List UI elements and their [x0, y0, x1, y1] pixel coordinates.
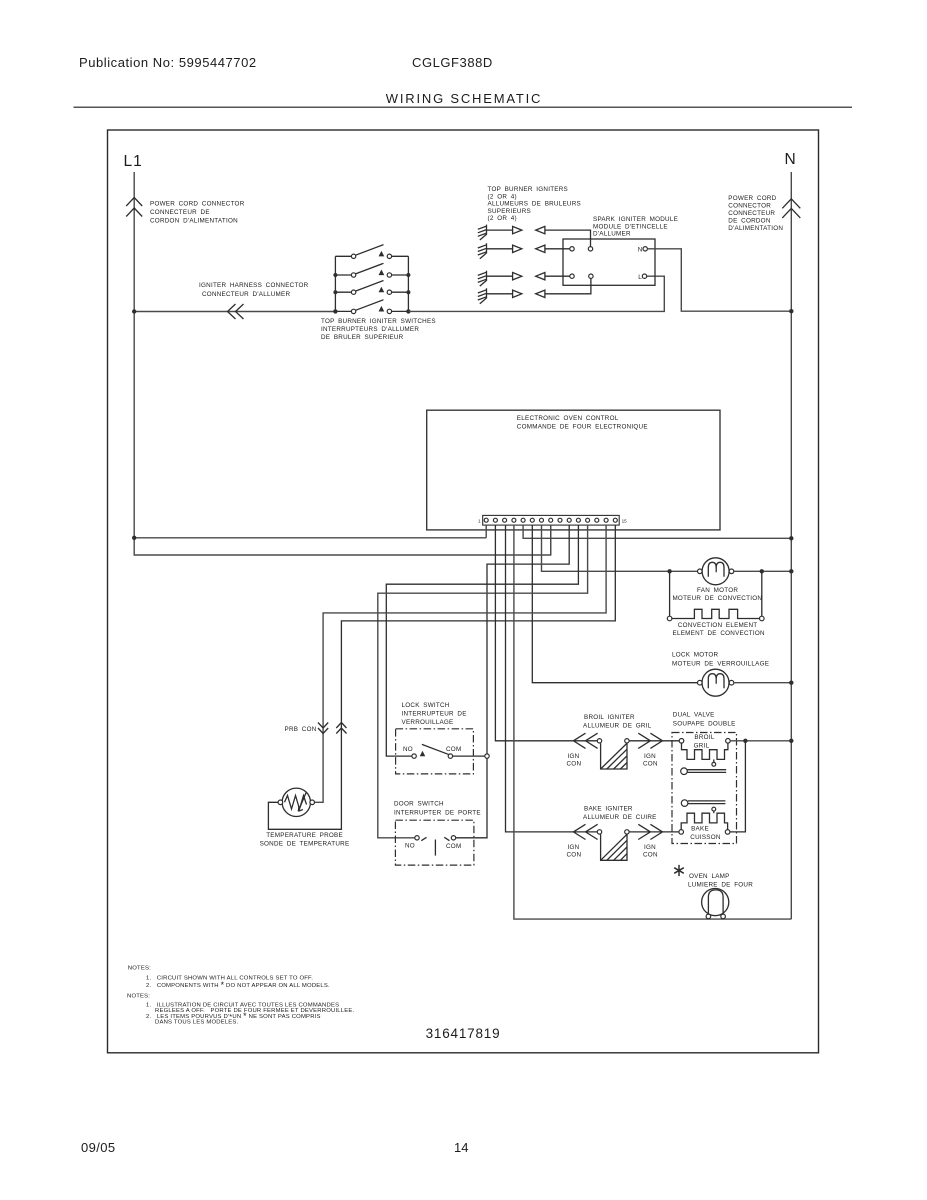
- wire pin1 to neutral bus: [485, 525, 487, 538]
- label bake igniter: [583, 806, 657, 822]
- svg-text:L: L: [638, 274, 642, 281]
- svg-text:POWER CORD: POWER CORD: [728, 195, 776, 202]
- svg-text:CONVECTION ELEMENT: CONVECTION ELEMENT: [678, 622, 758, 629]
- label lock motor: [672, 651, 769, 667]
- igniter electrode E3: [478, 271, 487, 286]
- svg-text:D'ALLUMER: D'ALLUMER: [593, 231, 631, 238]
- connector arrow right row4: [513, 290, 522, 297]
- svg-text:ALLUMEUR DE GRIL: ALLUMEUR DE GRIL: [583, 723, 652, 730]
- svg-text:IGN: IGN: [568, 844, 580, 851]
- label door switch: [394, 801, 481, 817]
- dual valve V1 dashed box: [672, 733, 737, 844]
- svg-text:CON: CON: [643, 852, 658, 859]
- wire igniter bus left (L1 to switch ladder): [134, 311, 335, 313]
- svg-text:BAKE IGNITER: BAKE IGNITER: [584, 806, 633, 813]
- junction dot N rail / bus: [789, 536, 793, 540]
- wire row1 to module top pin: [545, 230, 591, 247]
- svg-text:ELEMENT DE CONVECTION: ELEMENT DE CONVECTION: [673, 630, 766, 637]
- connector arrow left row4: [536, 290, 545, 297]
- igniter electrode E1: [478, 225, 487, 240]
- label broil IGN CON right: [643, 753, 658, 768]
- svg-text:SUPERIEURS: SUPERIEURS: [488, 208, 531, 215]
- junction dot fan line / element right branch: [760, 569, 764, 573]
- label igniter harness connector: [199, 282, 309, 298]
- wire E2 to connector: [487, 248, 513, 250]
- svg-text:CONNECTEUR: CONNECTEUR: [728, 210, 775, 217]
- lock motor M2: [698, 669, 734, 696]
- connector arrow right row2: [513, 245, 522, 252]
- label dual valve: [673, 712, 736, 728]
- svg-text:FAN MOTOR: FAN MOTOR: [697, 587, 738, 594]
- svg-text:DE CORDON: DE CORDON: [728, 218, 771, 225]
- svg-text:CONNECTEUR D'ALLUMER: CONNECTEUR D'ALLUMER: [202, 291, 290, 298]
- EOC pin header J1: [483, 515, 620, 525]
- label power cord connector left: [150, 201, 245, 225]
- left rail: [334, 256, 336, 311]
- label broil IGN CON left: [567, 753, 582, 768]
- bake valve tap: [713, 811, 715, 813]
- broil valve tap: [713, 759, 715, 762]
- element meander: [672, 609, 760, 618]
- svg-text:BAKE: BAKE: [691, 826, 709, 833]
- lock switch travel stop triangle: [420, 752, 424, 756]
- svg-text:ALLUMEUR DE CUIRE: ALLUMEUR DE CUIRE: [583, 814, 657, 821]
- svg-text:LOCK MOTOR: LOCK MOTOR: [672, 651, 719, 658]
- svg-text:COM: COM: [446, 843, 461, 850]
- wire pin14 to temperature probe: [314, 525, 606, 802]
- svg-text:15: 15: [622, 519, 628, 524]
- svg-text:NOTES:: NOTES:: [127, 993, 150, 999]
- label fan motor: [672, 587, 762, 602]
- module pin circles: [570, 247, 574, 251]
- wire pin10 to lock/door COM drop: [456, 525, 570, 838]
- label broil/gril coil: [694, 734, 715, 750]
- label top burner igniters: [488, 186, 581, 222]
- svg-text:CGLGF388D: CGLGF388D: [412, 55, 493, 70]
- svg-text:MOTEUR DE CONVECTION: MOTEUR DE CONVECTION: [672, 595, 762, 602]
- junction dot L1 rail / bus: [132, 536, 136, 540]
- probe resistor zigzag: [285, 796, 307, 810]
- svg-text:WIRING SCHEMATIC: WIRING SCHEMATIC: [386, 91, 542, 106]
- oven lamp DS1: [702, 889, 729, 919]
- svg-text:Publication No: 5995447702: Publication No: 5995447702: [79, 55, 257, 70]
- connector arrow right row3: [513, 273, 522, 280]
- svg-text:DOOR SWITCH: DOOR SWITCH: [394, 801, 444, 808]
- svg-text:DE BRULER SUPERIEUR: DE BRULER SUPERIEUR: [321, 334, 404, 341]
- wire pin5 to bus right segment: [523, 525, 791, 538]
- junction dot N rail / module N wire: [789, 309, 793, 313]
- junction dot broil/N rail: [789, 739, 793, 743]
- svg-text:NOTES:: NOTES:: [128, 966, 151, 972]
- svg-text:CON: CON: [643, 761, 658, 768]
- svg-text:BROIL IGNITER: BROIL IGNITER: [584, 714, 635, 721]
- temperature probe RT1: [278, 788, 314, 816]
- svg-text:ALLUMEURS DE BRULEURS: ALLUMEURS DE BRULEURS: [488, 201, 581, 208]
- wire pin8 to L1 rail (y555): [550, 525, 552, 555]
- wire pin11 to lock switch NO: [386, 525, 578, 756]
- element branch wires: [670, 571, 762, 616]
- bake igniter G2 (hatched): [597, 830, 629, 861]
- junction dot fan line / N rail: [789, 569, 793, 573]
- label oven lamp: [688, 873, 753, 888]
- lock switch contacts: [412, 744, 453, 758]
- junction dot fan line / element left branch: [667, 569, 671, 573]
- svg-text:OVEN LAMP: OVEN LAMP: [689, 873, 730, 880]
- electronic oven control U2 box: [427, 410, 720, 530]
- lock switch blade: [422, 744, 449, 754]
- svg-text:PRB CON: PRB CON: [285, 726, 317, 733]
- door switch contact ticks: [421, 837, 449, 840]
- label temperature probe: [260, 832, 350, 848]
- bake valve coil: [679, 807, 730, 834]
- wire pin4 to oven lamp line: [514, 525, 791, 919]
- label broil igniter: [583, 714, 652, 730]
- svg-text:TEMPERATURE PROBE: TEMPERATURE PROBE: [266, 832, 343, 839]
- wire E1 to connector: [487, 229, 513, 231]
- svg-text:316417819: 316417819: [426, 1026, 501, 1041]
- svg-text:COM: COM: [446, 746, 461, 753]
- bake valve plunger: [681, 800, 725, 807]
- wire pin3 to bake igniter line: [506, 525, 598, 832]
- svg-text:D'ALIMENTATION: D'ALIMENTATION: [728, 225, 783, 232]
- svg-text:CONNECTOR: CONNECTOR: [728, 203, 771, 210]
- svg-text:IGN: IGN: [568, 753, 580, 760]
- svg-text:DANS TOUS LES MODELES.: DANS TOUS LES MODELES.: [155, 1019, 239, 1025]
- igniter electrode E2: [478, 243, 487, 258]
- broil igniter connector chevrons right: [638, 733, 662, 748]
- schematic outer border: [108, 130, 819, 1053]
- svg-text:SOUPAPE DOUBLE: SOUPAPE DOUBLE: [673, 721, 736, 728]
- svg-text:MODULE D'ETINCELLE: MODULE D'ETINCELLE: [593, 223, 668, 230]
- lock switch SW5 dashed box: [396, 729, 474, 774]
- fan motor M1: [698, 558, 734, 585]
- wire L1 rail vertical: [134, 172, 551, 555]
- svg-text:VERROUILLAGE: VERROUILLAGE: [402, 719, 454, 726]
- connector arrow right row1: [513, 226, 522, 233]
- switch row 4 (on bus): [335, 310, 408, 312]
- wire E3 to connector: [487, 275, 513, 277]
- svg-text:ELECTRONIC OVEN CONTROL: ELECTRONIC OVEN CONTROL: [517, 415, 619, 422]
- svg-text:LUMIERE DE FOUR: LUMIERE DE FOUR: [688, 881, 753, 888]
- motor coil symbol: [708, 562, 724, 577]
- top burner igniter switches SW1-SW4 ladder: [333, 245, 410, 314]
- wire bake igniter to valve: [629, 831, 679, 833]
- bake igniter connector chevrons left: [573, 824, 597, 839]
- svg-text:SONDE DE TEMPERATURE: SONDE DE TEMPERATURE: [260, 841, 350, 848]
- wire lock motor to N rail: [734, 682, 792, 684]
- lock COM terminal circle on pin10 drop: [485, 754, 489, 758]
- wire row2 to module left pin: [545, 248, 570, 250]
- wire broil junction down to bake coil: [730, 741, 746, 832]
- wire E4 to connector: [487, 293, 513, 295]
- svg-text:COMMANDE DE FOUR ELECTRONIQUE: COMMANDE DE FOUR ELECTRONIQUE: [517, 424, 648, 431]
- wire lock COM to pin10 drop: [453, 755, 487, 757]
- wire pin6 to lock motor: [532, 525, 697, 683]
- wire row3 to module left pin: [545, 275, 570, 277]
- top burner igniter row 2: [478, 243, 570, 258]
- svg-text:INTERRUPTEUR DE: INTERRUPTEUR DE: [402, 711, 467, 718]
- connector arrow left row1: [536, 226, 545, 233]
- label lock switch: [402, 702, 467, 726]
- svg-text:L1: L1: [124, 153, 143, 170]
- right rail: [407, 256, 409, 311]
- broil igniter G1 (hatched): [597, 739, 629, 769]
- switch row 2: [335, 274, 408, 276]
- svg-text:NO: NO: [405, 843, 415, 850]
- svg-text:LOCK SWITCH: LOCK SWITCH: [402, 702, 450, 709]
- pin header terminals 1-15: [484, 518, 617, 522]
- switch row 3: [335, 291, 408, 293]
- wire pin15 to temperature probe return loop: [268, 525, 615, 829]
- door switch contacts: [415, 836, 456, 856]
- wire pin12 to door switch NO: [378, 525, 588, 838]
- svg-text:(2 OR 4): (2 OR 4): [488, 215, 517, 222]
- spark igniter module U1 box: [563, 239, 655, 285]
- svg-text:IGN: IGN: [644, 844, 656, 851]
- label power cord connector right: [728, 195, 783, 232]
- label top burner igniter switches: [321, 318, 436, 341]
- broil valve coil: [679, 739, 730, 767]
- svg-text:INTERRUPTEURS D'ALLUMER: INTERRUPTEURS D'ALLUMER: [321, 326, 419, 333]
- bake igniter connector chevrons right: [638, 824, 662, 839]
- svg-text:GRIL: GRIL: [694, 743, 710, 750]
- svg-text:N: N: [638, 246, 643, 253]
- svg-text:CORDON D'ALIMENTATION: CORDON D'ALIMENTATION: [150, 218, 238, 225]
- wire row4 to module bottom pin: [545, 278, 591, 293]
- svg-text:BROIL: BROIL: [694, 734, 714, 741]
- svg-text:TOP BURNER IGNITERS: TOP BURNER IGNITERS: [488, 186, 569, 193]
- connector arrow left row2: [536, 245, 545, 252]
- svg-text:(2 OR 4): (2 OR 4): [488, 193, 517, 200]
- motor coil symbol: [708, 674, 724, 689]
- wire N rail vertical: [790, 172, 792, 919]
- wire neutral bus left segment: [134, 537, 486, 539]
- svg-text:TOP BURNER IGNITER SWITCHES: TOP BURNER IGNITER SWITCHES: [321, 318, 436, 325]
- door switch SW6 dashed box: [395, 820, 474, 865]
- svg-text:IGNITER HARNESS CONNECTOR: IGNITER HARNESS CONNECTOR: [199, 282, 309, 289]
- svg-text:N: N: [785, 151, 796, 168]
- ladder junction dots: [333, 273, 337, 277]
- svg-text:14: 14: [454, 1140, 468, 1155]
- label bake/cuisson coil: [690, 826, 721, 841]
- broil valve plunger: [681, 768, 727, 775]
- wire switch bus to L pin riser: [408, 276, 664, 311]
- wire pin2 to broil igniter line: [495, 525, 597, 741]
- igniter harness connector chevrons: [228, 304, 244, 319]
- svg-text:1. CIRCUIT SHOWN WITH ALL CO: 1. CIRCUIT SHOWN WITH ALL CONTROLS SET T…: [146, 975, 313, 981]
- svg-text:1: 1: [478, 519, 481, 524]
- top burner igniter row 1: [478, 225, 591, 247]
- svg-text:CON: CON: [567, 761, 582, 768]
- label electronic oven control: [517, 415, 648, 431]
- igniter electrode E4: [478, 288, 487, 303]
- svg-text:DUAL VALVE: DUAL VALVE: [673, 712, 715, 719]
- probe connector chevrons (down pair on pin14 wire): [318, 723, 328, 734]
- wire module N pin to N rail: [647, 249, 791, 311]
- junction dot L1/igniter bus: [132, 309, 136, 313]
- power cord connector P1 (left chevrons): [126, 198, 142, 217]
- svg-text:NO: NO: [403, 746, 413, 753]
- convection element R1: [667, 571, 764, 621]
- notes block: [127, 966, 354, 1026]
- wire pin7 to fan motor line: [542, 525, 698, 571]
- label bake IGN CON left: [567, 844, 582, 859]
- svg-text:MOTEUR DE VERROUILLAGE: MOTEUR DE VERROUILLAGE: [672, 660, 769, 667]
- svg-text:09/05: 09/05: [81, 1140, 116, 1155]
- probe connector chevrons (up pair on pin15 wire): [336, 723, 346, 734]
- door switch actuator stem: [434, 840, 436, 856]
- svg-text:POWER CORD CONNECTOR: POWER CORD CONNECTOR: [150, 201, 245, 208]
- wire broil line to N rail: [730, 740, 791, 742]
- switch row 1: [335, 255, 408, 257]
- top burner igniter row 3: [478, 271, 570, 286]
- svg-text:CONNECTEUR DE: CONNECTEUR DE: [150, 209, 210, 216]
- title rule: [74, 106, 853, 108]
- top burner igniter row 4: [478, 278, 591, 303]
- label bake IGN CON right: [643, 844, 658, 859]
- svg-text:SPARK IGNITER MODULE: SPARK IGNITER MODULE: [593, 216, 678, 223]
- connector arrow left row3: [536, 273, 545, 280]
- oven lamp asterisk: [674, 865, 684, 876]
- label spark igniter module: [593, 216, 678, 238]
- junction dot broil/bake drop: [743, 739, 747, 743]
- junction dot lock motor / N rail: [789, 681, 793, 685]
- label convection element: [673, 622, 766, 637]
- svg-text:INTERRUPTER DE PORTE: INTERRUPTER DE PORTE: [394, 810, 481, 817]
- svg-text:IGN: IGN: [644, 753, 656, 760]
- svg-text:CUISSON: CUISSON: [690, 834, 721, 841]
- wire broil igniter to valve: [629, 740, 679, 742]
- svg-text:CON: CON: [567, 852, 582, 859]
- wire fan motor to N rail: [734, 570, 792, 572]
- broil igniter connector chevrons left: [573, 733, 597, 748]
- power cord connector P2 (right chevrons): [782, 199, 800, 218]
- probe thermistor arrow: [298, 793, 306, 812]
